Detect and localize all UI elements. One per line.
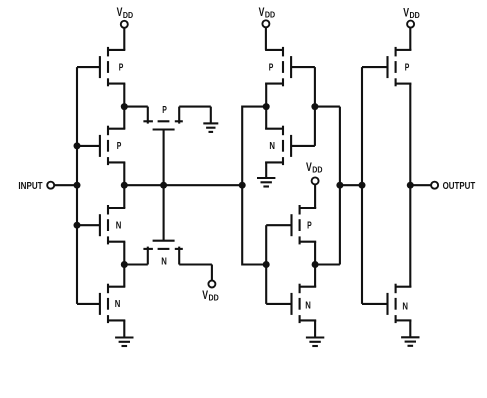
- svg-text:P: P: [162, 105, 167, 116]
- svg-text:DD: DD: [209, 294, 219, 303]
- svg-text:V: V: [117, 6, 123, 19]
- svg-text:N: N: [161, 257, 167, 268]
- svg-text:DD: DD: [123, 11, 133, 20]
- svg-text:P: P: [405, 62, 410, 73]
- svg-text:P: P: [119, 62, 124, 73]
- svg-text:INPUT: INPUT: [18, 181, 43, 192]
- svg-text:DD: DD: [312, 166, 322, 175]
- svg-text:N: N: [402, 301, 408, 312]
- svg-text:P: P: [307, 220, 312, 231]
- svg-text:P: P: [269, 62, 274, 73]
- svg-text:DD: DD: [265, 11, 275, 20]
- svg-text:V: V: [202, 289, 208, 302]
- svg-text:N: N: [115, 299, 121, 310]
- svg-text:N: N: [305, 300, 311, 311]
- svg-text:V: V: [259, 6, 265, 19]
- svg-text:P: P: [117, 141, 122, 152]
- svg-text:DD: DD: [410, 11, 420, 20]
- svg-text:N: N: [269, 141, 275, 152]
- svg-text:V: V: [403, 7, 409, 20]
- svg-text:V: V: [306, 161, 312, 174]
- svg-text:OUTPUT: OUTPUT: [443, 181, 476, 192]
- svg-text:N: N: [116, 220, 122, 231]
